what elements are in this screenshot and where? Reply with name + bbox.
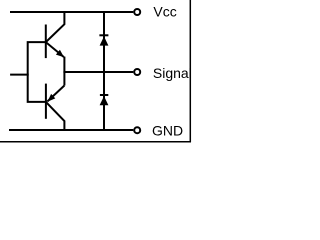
svg-text:GND: GND (152, 123, 183, 139)
svg-text:Signal: Signal (153, 65, 192, 81)
svg-text:Vcc: Vcc (153, 4, 176, 20)
